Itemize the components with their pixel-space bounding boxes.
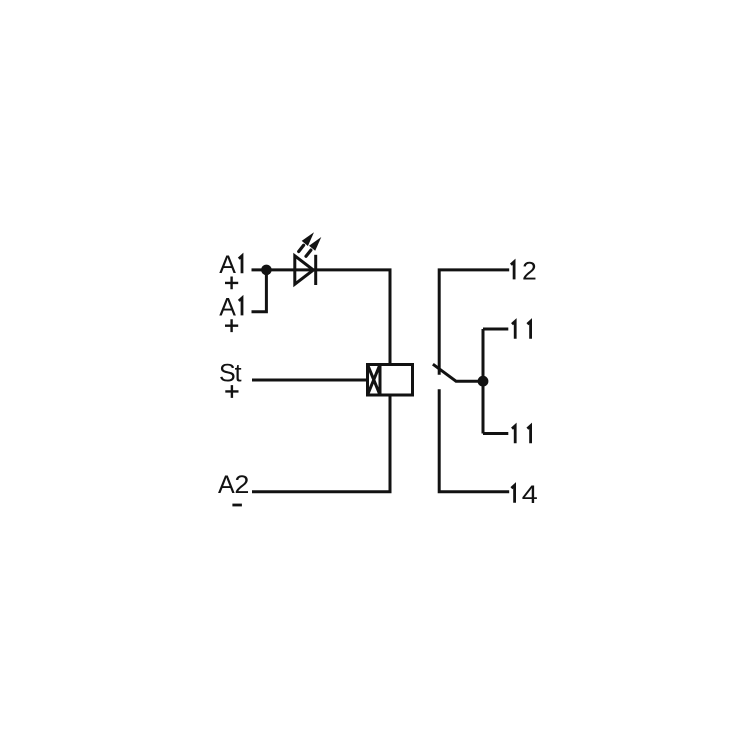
terminal label 11 (lower)	[512, 426, 531, 444]
wire St to relay coil	[252, 379, 368, 382]
LED D1 emission arrow 1	[299, 245, 304, 251]
relay coil K1 X mark	[368, 365, 381, 396]
relay coil K1 divider	[379, 365, 382, 396]
svg-text:4: 4	[522, 481, 538, 509]
svg-text:A: A	[219, 293, 236, 321]
junction dot at node A1	[261, 265, 272, 276]
wire A2 to coil bottom	[252, 395, 390, 492]
wire A1 lower stub up to junction	[252, 270, 267, 312]
minus polarity mark under A2	[232, 504, 242, 507]
wire A1 upper stub to junction and on through LED to corner, then down to coil	[252, 270, 391, 365]
plus polarity mark under lower A1	[225, 319, 238, 332]
terminal label A1 (lower)	[219, 293, 236, 321]
wire terminal 11 upper	[483, 328, 508, 331]
svg-text:A: A	[218, 471, 235, 499]
LED D1 emission arrow 2	[306, 250, 311, 256]
terminal label 11 (upper)	[512, 321, 531, 339]
terminal label 12	[511, 262, 514, 280]
terminal label A2	[218, 471, 249, 499]
terminal label A1 (upper)	[219, 251, 236, 279]
svg-text:St: St	[219, 359, 242, 387]
plus polarity mark under St	[225, 385, 238, 398]
LED D1 triangle (anode)	[295, 256, 314, 284]
LED D1 cathode bar	[314, 255, 317, 285]
svg-text:A: A	[219, 251, 236, 279]
relay coil K1 body	[368, 365, 413, 396]
svg-text:2: 2	[522, 257, 537, 285]
junction dot at switch common node	[478, 376, 489, 387]
svg-text:2: 2	[234, 471, 249, 499]
wire terminal 12 to switch fixed contact	[439, 270, 509, 375]
terminal label 14	[511, 485, 514, 503]
switch S1 movable blade	[433, 364, 478, 381]
wire terminal 11 lower	[483, 432, 508, 435]
wire common node vertical (11 to 11)	[482, 329, 485, 434]
plus polarity mark under upper A1	[225, 277, 238, 290]
terminal label St	[219, 359, 242, 387]
wire terminal 14 to switch	[439, 389, 509, 491]
